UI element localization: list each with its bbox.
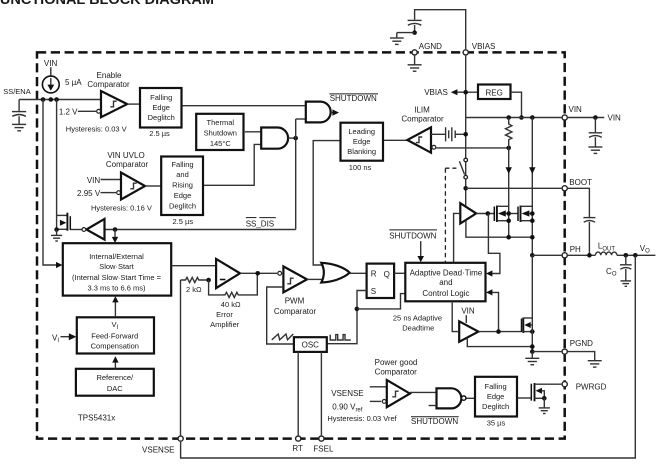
high-side drain wire 1 (with arrow) [506, 148, 512, 237]
svg-text:TPS5431x: TPS5431x [78, 414, 115, 423]
svg-text:and: and [176, 170, 189, 179]
hysteresis glyph PWM comparator [287, 278, 293, 284]
svg-text:Adaptive Dead·Time: Adaptive Dead·Time [410, 268, 483, 277]
ground bar 1 (ext PGND) [588, 360, 602, 362]
dashed control line to adaptive logic [445, 168, 458, 263]
svg-text:VIN UVLO: VIN UVLO [107, 151, 144, 160]
junction dot REG input on VIN rail [519, 115, 524, 120]
node VBIAS internal: vertical VBIAS/BOOT rail [465, 56, 467, 207]
AGND pin [412, 50, 417, 55]
S input net from OSC [327, 291, 406, 344]
comparator U-uvlo [121, 173, 145, 200]
junction dot PGND node [530, 349, 535, 354]
transistor Q2 (high-side 2) [518, 206, 535, 224]
svg-text:VIN: VIN [87, 176, 101, 185]
svg-text:Internal/External: Internal/External [89, 252, 144, 261]
ground (top cap) [390, 33, 404, 45]
junction dot SS_DIS net [293, 136, 298, 141]
bubble UVLO comparator inverting input [117, 191, 121, 195]
RT pin [296, 436, 301, 441]
wire VIN stub to low-side driver top [465, 315, 467, 323]
node dots on SS/ENA wire [41, 97, 46, 102]
svg-text:Shutdown: Shutdown [204, 128, 237, 137]
svg-text:VIN: VIN [461, 307, 475, 316]
transistor Q-ss (soft-start discharge) [57, 100, 71, 231]
thermal shutdown box [196, 114, 243, 150]
FSEL pin [319, 436, 324, 441]
svg-text:Leading: Leading [348, 127, 375, 136]
VSENSE pin [178, 436, 183, 441]
inverter (points left) [86, 219, 104, 240]
svg-text:Power good: Power good [375, 358, 418, 367]
wire PG comp to NAND [410, 391, 437, 393]
svg-text:(Internal Slow·Start Time =: (Internal Slow·Start Time = [72, 273, 162, 282]
ground (ext VIN cap) [588, 147, 602, 153]
falling edge deglitch box (pwrgd) [475, 377, 517, 417]
SHUTDOWN label + arrow into adaptive [389, 230, 437, 262]
resistor 2k on VSENSE input [181, 277, 209, 282]
svg-text:Rising: Rising [172, 181, 193, 190]
svg-text:SHUTDOWN: SHUTDOWN [330, 94, 377, 103]
leading edge blanking box [341, 123, 384, 161]
wire VSENSE to PG non-inverting input [370, 386, 387, 388]
svg-text:25 ns Adaptive: 25 ns Adaptive [393, 313, 442, 322]
svg-text:PGND: PGND [570, 339, 593, 348]
svg-text:Reference/: Reference/ [96, 373, 134, 382]
svg-text:ILIM: ILIM [414, 105, 430, 114]
NAND gate [437, 388, 462, 408]
junction dot Q2 source to PH tie [530, 235, 535, 240]
wire BOOT node to BOOT pin [466, 187, 562, 189]
svg-text:PH: PH [570, 245, 581, 254]
svg-text:Thermal: Thermal [207, 118, 235, 127]
svg-text:SHUTDOWN: SHUTDOWN [389, 232, 436, 241]
svg-text:Hysteresis: 0.16 V: Hysteresis: 0.16 V [91, 204, 152, 213]
PWM comp output to OR [307, 278, 323, 280]
svg-text:Error: Error [216, 310, 233, 319]
ground (PWRGD FET) [539, 398, 550, 413]
svg-text:5 µA: 5 µA [65, 78, 82, 87]
svg-text:Amplifier: Amplifier [210, 320, 240, 329]
driver input from adaptive logic [454, 213, 461, 262]
svg-text:2.5 µs: 2.5 µs [149, 129, 170, 138]
external PGND ground [568, 352, 602, 368]
low gate sense wire to adaptive logic [486, 289, 499, 331]
AND gate small (uvlo+thermal) [261, 128, 288, 149]
junction dot low-side gate sense [496, 329, 501, 334]
wire SS_DIS to big AND input [296, 118, 306, 120]
svg-text:Comparator: Comparator [87, 80, 130, 89]
SHUTDOWN label (top) [329, 94, 378, 103]
ground (CO) [621, 281, 632, 286]
transistor Q-pg (PWRGD open drain) [531, 383, 561, 401]
ground (discharge FET) [51, 230, 62, 242]
svg-text:Falling: Falling [150, 93, 172, 102]
svg-text:Enable: Enable [97, 71, 122, 80]
VBIAS arrow to loads [424, 88, 478, 97]
OSC to RT pin [297, 352, 299, 435]
arrow DAC to FF [112, 356, 118, 369]
wire LEB to OR gate (via left) [313, 141, 339, 265]
offset source (battery bars) [431, 127, 466, 141]
transistor Q3 (low-side) [522, 318, 535, 334]
junction dot high-side gate node [486, 211, 491, 216]
svg-text:1.2 V: 1.2 V [59, 107, 78, 116]
bubble ILIM comparator inverting output [432, 145, 436, 149]
svg-text:VBIAS: VBIAS [424, 88, 448, 97]
ground (power stage) [525, 352, 539, 365]
svg-text:VSENSE: VSENSE [142, 446, 174, 455]
wire REG to VIN rail [511, 92, 522, 117]
PH to low FET drain / source to PGND [531, 255, 533, 351]
svg-text:2.5 µs: 2.5 µs [173, 217, 194, 226]
transistor Q1 (high-side 1) [494, 206, 518, 224]
svg-text:VSENSE: VSENSE [331, 389, 363, 398]
wire inverter output to discharge FET gate [70, 229, 81, 231]
error amp output [240, 272, 277, 274]
gate sense wire to adaptive logic [486, 214, 500, 277]
driver input from adaptive [452, 301, 459, 331]
inductor LOUT [595, 252, 617, 255]
IC dashed border [37, 52, 565, 438]
svg-text:40 kΩ: 40 kΩ [221, 300, 241, 309]
junction dot boot cap to PH [587, 253, 592, 258]
svg-text:Deglitch: Deglitch [169, 202, 196, 211]
svg-text:Compensation: Compensation [91, 342, 139, 351]
PWRGD pin [562, 382, 567, 387]
junction dot [412, 30, 417, 35]
wire LEB to ILIM comp [384, 139, 407, 141]
wire deglitch to pwrgd FET gate [518, 397, 532, 399]
svg-text:100 ns: 100 ns [349, 163, 372, 172]
bubble PG comparator inverting input [382, 400, 386, 404]
junction dot CO tap [624, 253, 629, 258]
svg-text:FSEL: FSEL [313, 445, 334, 454]
external soft-start cap [12, 100, 26, 125]
svg-text:2 kΩ: 2 kΩ [186, 285, 202, 294]
SS/ENA wire [19, 99, 101, 101]
wire 1.2V reference to inverting input [78, 110, 96, 112]
svg-text:SS/ENA: SS/ENA [3, 87, 31, 96]
junction dot current source to SS/ENA [49, 97, 54, 102]
high-side drain wire 2 (with arrow) [529, 115, 535, 255]
svg-text:VBIAS: VBIAS [472, 42, 496, 51]
svg-text:Comparator: Comparator [274, 307, 317, 316]
external VIN cap [589, 118, 602, 148]
comparator U-pg [387, 380, 410, 407]
BOOT node [463, 186, 468, 191]
junction dot discharge FET branch [54, 97, 59, 102]
comparator U-enable [101, 91, 127, 117]
feedback resistor 40k [209, 273, 258, 297]
svg-text:Comparator: Comparator [106, 160, 149, 169]
junction dot SS_DIS to slow-start [113, 227, 118, 232]
external boot cap [568, 188, 595, 255]
high-side gate driver [460, 203, 476, 223]
svg-text:SHUTDOWN: SHUTDOWN [411, 417, 458, 426]
wire to ground [397, 32, 415, 34]
svg-text:DAC: DAC [107, 384, 123, 393]
PH rail [530, 253, 535, 258]
comparator U-ilim (points left) [407, 127, 431, 152]
ramp input wire [267, 287, 294, 344]
wire deglitch2 to small AND [204, 144, 261, 185]
OR to RS latch R [350, 272, 367, 274]
svg-text:RT: RT [292, 444, 303, 453]
svg-text:S: S [371, 287, 376, 296]
external VIN wire [568, 117, 604, 119]
VBIAS bypass cap C-agnd top [408, 10, 466, 49]
svg-text:VIN: VIN [44, 59, 58, 68]
bubble NAND output [462, 396, 466, 400]
driver ground tie [467, 338, 532, 347]
offset source bar long 1 [445, 127, 447, 141]
junction dot driver ground tie [530, 344, 535, 349]
wire 2.95V to UVLO inverting input [101, 192, 117, 194]
svg-text:and: and [439, 278, 452, 287]
svg-text:145°C: 145°C [210, 139, 232, 148]
low-side driver triangle [459, 321, 478, 342]
wire VIN to UVLO non-inverting input [101, 179, 122, 181]
wire small AND out [288, 137, 296, 139]
ILIM switch [459, 158, 467, 179]
BOOT pin [562, 186, 567, 191]
wire thermal to small AND [245, 131, 261, 133]
gate line to FETs [476, 213, 494, 215]
wire AGND pin to ground below [414, 56, 416, 65]
svg-text:BOOT: BOOT [569, 178, 592, 187]
offset source bar short 1 [448, 130, 450, 138]
arrow FF to slow-start [112, 296, 118, 317]
OR gate [321, 263, 349, 283]
offset source bar short 2 [454, 131, 456, 139]
bubble enable comparator inverting input [97, 109, 101, 113]
svg-text:FUNCTIONAL BLOCK DIAGRAM: FUNCTIONAL BLOCK DIAGRAM [0, 0, 214, 7]
SS_DIS label [246, 218, 276, 229]
PGND rail [532, 351, 561, 353]
svg-text:Edge: Edge [353, 137, 371, 146]
AND gate big (shutdown) [306, 102, 331, 123]
ground (below AGND) [408, 65, 422, 71]
VO node [617, 254, 656, 256]
svg-text:35 µs: 35 µs [487, 418, 506, 427]
Q to adaptive logic [394, 272, 405, 274]
svg-text:R: R [371, 270, 377, 279]
svg-text:Deglitch: Deglitch [148, 113, 175, 122]
svg-text:Control Logic: Control Logic [422, 289, 469, 298]
SHUTDOWN label (bottom) [411, 417, 459, 426]
PWM comparator [278, 271, 282, 275]
junction dot discharge FET source [54, 227, 59, 232]
VSENSE internal wire [180, 280, 182, 435]
RS latch box [367, 264, 395, 298]
external PH wire [568, 254, 595, 256]
wire/arrow SS pin current into slow-start [43, 100, 62, 269]
svg-text:Blanking: Blanking [347, 147, 376, 156]
driver ground tie to PH [466, 221, 532, 238]
wire SS_DIS to inverter [105, 229, 296, 231]
svg-text:Edge: Edge [174, 191, 192, 200]
svg-text:Deglitch: Deglitch [482, 402, 509, 411]
junction dot error amp inverting input [206, 278, 211, 283]
OSC to FSEL pin [320, 352, 322, 435]
PH pin [562, 253, 567, 258]
wire slow-start to error amp [171, 265, 216, 267]
svg-text:Falling: Falling [485, 382, 507, 391]
NAND output [466, 397, 475, 399]
svg-text:Edge: Edge [152, 103, 170, 112]
junction dot Q1 source to PH tie [506, 235, 511, 240]
bubble inverter output [82, 228, 86, 232]
svg-text:Deadtime: Deadtime [402, 323, 434, 332]
svg-text:Falling: Falling [171, 160, 193, 169]
junction dot feedback tap [633, 253, 638, 258]
VIN rail inside [466, 117, 562, 119]
falling edge deglitch box (enable) [140, 88, 182, 128]
svg-text:Comparator: Comparator [401, 115, 444, 124]
error amplifier [216, 259, 240, 288]
junction dot sense resistor bottom [506, 146, 511, 151]
current source 5uA [42, 59, 82, 93]
sawtooth symbol [272, 334, 294, 340]
svg-text:REG: REG [486, 88, 503, 97]
svg-text:Edge: Edge [487, 392, 505, 401]
ground bar 2 (ext PGND) [590, 363, 599, 365]
junction dot external VIN cap tap [593, 115, 598, 120]
svg-text:VIN: VIN [569, 105, 583, 114]
reference/DAC box [76, 369, 154, 396]
sense resistor (vertical) [506, 115, 512, 148]
clock square wave symbol [330, 335, 351, 340]
svg-text:PWM: PWM [285, 297, 305, 306]
SHUTDOWN output arrow [331, 109, 339, 115]
feedback wire VO to VSENSE [181, 255, 636, 458]
wire PH node to PH pin [532, 254, 561, 256]
OSC box [294, 337, 327, 352]
svg-text:PWRGD: PWRGD [576, 383, 607, 392]
arrow SS_DIS into slow-start [112, 230, 118, 244]
slow-start box [63, 243, 171, 295]
offset source bar long 2 [451, 127, 453, 141]
junction dot offset source to rail [463, 132, 468, 137]
NAND shutdown input stub [429, 405, 437, 407]
wire 0.90Vref to PG inverting input [370, 400, 381, 402]
driver output to low FET gate [478, 331, 521, 333]
VBIAS pin [463, 50, 468, 55]
svg-text:2.95 V: 2.95 V [77, 189, 101, 198]
svg-text:Hysteresis: 0.03 Vref: Hysteresis: 0.03 Vref [327, 414, 397, 423]
svg-text:AGND: AGND [419, 42, 442, 51]
wire comp to deglitch [127, 103, 140, 105]
adaptive dead-time box [405, 263, 485, 302]
output cap CO [620, 255, 632, 281]
regulator REG [478, 85, 511, 100]
falling and rising edge deglitch box [161, 157, 203, 216]
svg-text:Slow·Start: Slow·Start [99, 262, 135, 271]
svg-text:Q: Q [384, 270, 390, 279]
wire uvlo comp to deglitch2 [145, 185, 161, 187]
svg-text:3.3 ms to 6.6 ms): 3.3 ms to 6.6 ms) [88, 283, 146, 292]
svg-text:SS_DIS: SS_DIS [246, 219, 274, 228]
VI input arrow [52, 333, 76, 344]
VIN pin [562, 115, 567, 120]
svg-text:Hysteresis: 0.03 V: Hysteresis: 0.03 V [66, 124, 127, 133]
svg-text:VIN: VIN [608, 114, 622, 123]
junction dot error amp output/feedback [255, 271, 260, 276]
comparator U-pwm triangle [283, 266, 307, 292]
wire deglitch to AND [183, 105, 306, 107]
junction dot VBIAS node [463, 90, 468, 95]
svg-text:Feed·Forward: Feed·Forward [91, 331, 138, 340]
wire ILIM inverting input to resistor node [436, 147, 508, 149]
feed-forward box [77, 317, 154, 353]
ground (soft-start cap) [12, 124, 26, 130]
net SS_DIS vertical [295, 119, 297, 230]
svg-text:OSC: OSC [302, 341, 320, 350]
svg-text:Comparator: Comparator [375, 368, 418, 377]
PGND pin [562, 349, 567, 354]
ground bar 3 (ext PGND) [593, 366, 597, 368]
